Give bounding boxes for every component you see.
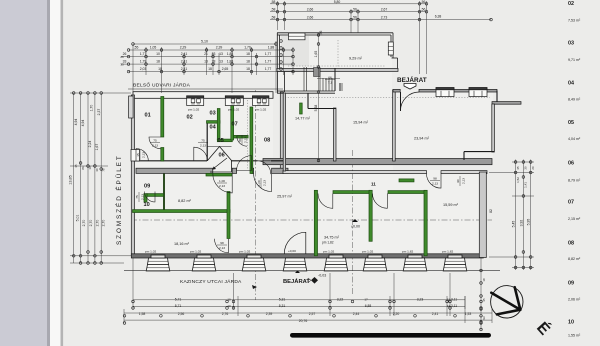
svg-text:76: 76: [102, 168, 106, 172]
svg-text:,58: ,58: [271, 8, 276, 12]
svg-text:2,20: 2,20: [393, 312, 400, 316]
svg-text:2,73: 2,73: [381, 16, 388, 20]
svg-text:04: 04: [210, 125, 217, 131]
svg-text:09: 09: [144, 184, 150, 190]
top-right rows: [270, 3, 427, 5]
svg-text:18,16 m²: 18,16 m²: [174, 242, 190, 246]
svg-text:18: 18: [158, 67, 162, 71]
svg-text:,56: ,56: [421, 0, 426, 4]
dimension node circles: [72, 3, 532, 331]
svg-text:1,88: 1,88: [227, 52, 234, 56]
svg-text:30: 30: [95, 168, 99, 172]
svg-text:2,13: 2,13: [200, 144, 206, 148]
svg-text:pm 1,02: pm 1,02: [145, 249, 156, 253]
room 06 stair trapezoid: [208, 147, 232, 161]
svg-text:2,41: 2,41: [181, 52, 188, 56]
svg-text:2,39: 2,39: [266, 312, 273, 316]
door room07 G6: [237, 136, 247, 146]
svg-text:±0,00: ±0,00: [351, 225, 360, 229]
svg-text:3,92: 3,92: [519, 220, 523, 227]
svg-text:1,52: 1,52: [516, 177, 520, 183]
svg-text:82: 82: [489, 209, 493, 213]
svg-text:21: 21: [204, 52, 208, 56]
right chain nodes: [514, 161, 517, 164]
G3 vertical 03/04: [217, 109, 220, 140]
short green near 399-414 y179: [399, 179, 414, 182]
svg-text:18: 18: [246, 52, 250, 56]
svg-text:25,97 m²: 25,97 m²: [277, 195, 293, 199]
bottom rows nodes: [132, 300, 135, 303]
corridor door at 236-251 swings up: [237, 156, 252, 171]
svg-text:08: 08: [568, 241, 574, 247]
door in green x=228 at bottom: [215, 239, 229, 253]
svg-text:2,13: 2,13: [462, 178, 466, 184]
svg-text:1,41: 1,41: [524, 182, 528, 188]
entrance stoop: [283, 258, 307, 271]
mid-right bottom thick band: [263, 159, 492, 165]
svg-text:66: 66: [328, 76, 332, 80]
svg-text:1,79: 1,79: [244, 46, 251, 50]
svg-text:3,11: 3,11: [451, 304, 457, 308]
svg-text:2,13: 2,13: [263, 180, 267, 186]
G6 bottom of 07: [234, 135, 249, 138]
svg-text:05: 05: [218, 138, 224, 144]
svg-text:1,70: 1,70: [90, 105, 94, 112]
svg-text:2,56: 2,56: [178, 312, 185, 316]
svg-text:18: 18: [208, 67, 212, 71]
svg-text:2,13: 2,13: [244, 137, 248, 143]
svg-text:7,53 m²: 7,53 m²: [568, 19, 581, 23]
svg-text:20: 20: [531, 166, 535, 170]
svg-text:10: 10: [227, 298, 231, 302]
svg-text:pm 1,02: pm 1,02: [228, 107, 239, 111]
svg-text:2,13: 2,13: [152, 144, 158, 148]
svg-text:93: 93: [482, 316, 486, 320]
svg-text:1,77: 1,77: [265, 60, 272, 64]
svg-text:1,00: 1,00: [257, 180, 261, 186]
svg-text:3,11: 3,11: [451, 298, 457, 302]
svg-text:75: 75: [153, 139, 157, 143]
top-right rows nodes: [276, 3, 279, 6]
door into 25,97: [254, 174, 272, 192]
svg-text:86: 86: [81, 166, 85, 170]
svg-text:8,82 m²: 8,82 m²: [178, 199, 192, 203]
svg-text:pm 1,82: pm 1,82: [402, 249, 413, 253]
svg-text:pm 1,02: pm 1,02: [239, 249, 250, 253]
svg-text:2,76: 2,76: [222, 312, 229, 316]
svg-text:2,13: 2,13: [142, 152, 146, 158]
svg-text:09: 09: [568, 281, 574, 287]
entrance arrow symbol top: [404, 84, 416, 90]
svg-text:2,13: 2,13: [432, 182, 438, 186]
bottom outer wall band: [131, 254, 483, 258]
bottom rows: [133, 299, 465, 301]
upper-left block chain circles x281: [280, 40, 283, 43]
svg-text:,56: ,56: [319, 31, 323, 36]
svg-text:2,70: 2,70: [89, 220, 93, 227]
svg-text:2,13: 2,13: [219, 246, 225, 250]
svg-text:30: 30: [524, 166, 528, 170]
chimney window notch: [289, 33, 306, 40]
svg-text:3,23: 3,23: [417, 298, 424, 302]
svg-text:2,57: 2,57: [309, 312, 316, 316]
svg-text:1,88: 1,88: [227, 60, 234, 64]
svg-text:2,06 m²: 2,06 m²: [568, 298, 581, 302]
svg-text:1,55 m²: 1,55 m²: [568, 334, 581, 338]
rotated dimension labels: [69, 31, 536, 320]
svg-text:8,79 m²: 8,79 m²: [568, 179, 581, 183]
G4 horizontal 04 bottom: [217, 139, 232, 142]
left vertical chains: [73, 93, 75, 263]
svg-text:26: 26: [120, 55, 124, 59]
svg-text:pm 1,02: pm 1,02: [362, 249, 373, 253]
chain at x318: [317, 34, 320, 37]
top-left block top wall band: [133, 92, 273, 99]
svg-text:1,00: 1,00: [219, 179, 225, 183]
svg-text:35: 35: [74, 164, 78, 168]
svg-text:5,38: 5,38: [314, 105, 318, 112]
interior black partitions top-left block: [133, 122, 283, 212]
svg-text:,58: ,58: [271, 0, 276, 4]
svg-text:05: 05: [568, 120, 574, 126]
svg-text:06: 06: [219, 153, 225, 159]
svg-text:1,79: 1,79: [140, 60, 147, 64]
corridor bottom wall band (left): [136, 168, 213, 173]
svg-text:75: 75: [135, 195, 139, 199]
svg-text:KAZINCZY UTCAI JÁRDA: KAZINCZY UTCAI JÁRDA: [180, 278, 242, 285]
svg-text:2,70: 2,70: [82, 220, 86, 227]
svg-text:2,66: 2,66: [307, 8, 314, 12]
svg-text:20,76: 20,76: [299, 319, 308, 323]
svg-text:pm 1,82: pm 1,82: [322, 241, 334, 245]
chain below right wall: [480, 269, 483, 272]
svg-text:2,13: 2,13: [141, 194, 145, 200]
svg-text:13,85: 13,85: [69, 175, 73, 185]
right outer wall: [479, 172, 486, 258]
svg-text:2,37: 2,37: [97, 109, 101, 116]
svg-text:10: 10: [88, 166, 92, 170]
svg-text:10: 10: [156, 52, 160, 56]
svg-text:90: 90: [456, 179, 460, 183]
door room08 bottom: [258, 161, 271, 174]
svg-text:80: 80: [238, 138, 242, 142]
svg-text:15,59 m²: 15,59 m²: [443, 203, 459, 207]
bottom band partitions: [314, 190, 317, 256]
svg-text:pm 1,02: pm 1,02: [188, 107, 199, 111]
svg-text:1,65: 1,65: [314, 51, 318, 58]
top-left rows nodes: [127, 49, 130, 52]
svg-text:5,95: 5,95: [527, 219, 531, 226]
svg-text:10: 10: [227, 304, 231, 308]
G5 vertical 03-04 / 07: [231, 97, 234, 141]
wall between stairs zone and 14,77: [277, 90, 335, 92]
svg-text:4,94: 4,94: [74, 119, 78, 126]
svg-text:,55: ,55: [134, 46, 139, 50]
svg-text:2,66: 2,66: [307, 16, 314, 20]
green vertical right of 8,82: [227, 192, 230, 239]
windows on 23,94 top wall: [436, 88, 454, 97]
svg-text:98: 98: [220, 241, 224, 245]
svg-text:4,94: 4,94: [81, 120, 85, 127]
svg-text:pm 1,02: pm 1,02: [255, 107, 266, 111]
svg-text:7,1: 7,1: [328, 81, 333, 85]
bottom entrance arc: [284, 232, 306, 254]
svg-text:5,31: 5,31: [279, 298, 286, 302]
svg-text:23,94 m²: 23,94 m²: [414, 137, 430, 141]
svg-text:4,04 m²: 4,04 m²: [568, 137, 581, 141]
svg-text:2,41: 2,41: [181, 60, 188, 64]
svg-text:1,77: 1,77: [265, 67, 272, 71]
svg-text:9,29 m²: 9,29 m²: [349, 57, 363, 61]
svg-text:10: 10: [568, 320, 574, 326]
stairs hatch upper mid: [304, 67, 342, 91]
svg-text:11: 11: [371, 182, 376, 187]
chain below right wall: [480, 258, 482, 330]
long green bottom of 09/10/8,82: [133, 210, 231, 213]
G1 room01/02 wall: [161, 97, 164, 138]
right vertical chain: [515, 160, 517, 271]
stair direction arrow: [214, 158, 228, 169]
svg-text:1,67: 1,67: [95, 144, 99, 151]
svg-text:pm 1,02: pm 1,02: [190, 249, 201, 253]
svg-text:2,70: 2,70: [102, 220, 106, 227]
svg-text:+0,00: +0,00: [288, 249, 296, 253]
svg-text:1,53: 1,53: [465, 312, 472, 316]
svg-text:1,88: 1,88: [268, 46, 275, 50]
small arrow bottom kazinczy: [252, 285, 257, 289]
svg-text:pm 1,82: pm 1,82: [442, 249, 453, 253]
svg-text:2,24: 2,24: [88, 141, 92, 148]
svg-text:BELSŐ UDVARI JÁRDA: BELSŐ UDVARI JÁRDA: [133, 82, 191, 89]
svg-text:75: 75: [201, 139, 205, 143]
svg-text:2,67: 2,67: [381, 8, 388, 12]
vertical dim at x318.5 upper-right: [318, 34, 320, 163]
svg-text:8,82 m²: 8,82 m²: [568, 257, 581, 261]
G2 bottom of 03: [207, 121, 221, 124]
diamond next to bottom BEJÁRAT: [311, 277, 318, 284]
svg-text:6,88: 6,88: [365, 304, 372, 308]
svg-text:2,39: 2,39: [216, 46, 223, 50]
G7 left wall of 08: [250, 107, 253, 174]
svg-text:83: 83: [212, 52, 216, 56]
svg-text:15: 15: [136, 153, 140, 157]
axis dash-dot lines: [131, 90, 492, 300]
green lintel under stair 06: [206, 173, 232, 176]
svg-text:2,41: 2,41: [181, 67, 188, 71]
svg-text:10: 10: [144, 202, 150, 208]
±0,00 marker: [288, 219, 360, 278]
svg-text:18: 18: [246, 67, 250, 71]
wall 02 right: [206, 122, 208, 161]
svg-text:13: 13: [204, 60, 208, 64]
window right wall 9,29 room: [388, 42, 393, 55]
svg-text:BEJÁRAT: BEJÁRAT: [283, 278, 310, 285]
svg-text:35: 35: [482, 298, 486, 302]
svg-text:3,22: 3,22: [337, 298, 344, 302]
svg-text:14,77 m²: 14,77 m²: [295, 117, 311, 121]
svg-text:78: 78: [212, 60, 216, 64]
main entrance top arc: [401, 92, 420, 111]
svg-text:2,65: 2,65: [222, 67, 229, 71]
wall 14,77 / 15,94: [333, 108, 336, 161]
svg-text:1,77: 1,77: [140, 52, 147, 56]
svg-text:5,80: 5,80: [334, 0, 341, 4]
left chains nodes: [72, 92, 75, 95]
right wall of block 08 / courtyard wall: [280, 92, 283, 172]
big room right door at 09: [145, 192, 156, 203]
svg-text:03: 03: [210, 111, 216, 117]
svg-text:04: 04: [568, 81, 574, 87]
dotted construction lines: [248, 40, 491, 170]
svg-text:1,77: 1,77: [265, 52, 272, 56]
svg-text:5,45: 5,45: [512, 221, 516, 228]
svg-text:35: 35: [516, 166, 520, 170]
door corridor to 8,82: [213, 174, 232, 193]
door room01 in G1: [149, 137, 161, 149]
svg-text:08: 08: [264, 138, 270, 144]
building interior fill: [133, 34, 493, 256]
svg-text:BEJÁRAT: BEJÁRAT: [397, 75, 427, 84]
upper-right block walls: [277, 33, 398, 93]
svg-text:03: 03: [568, 41, 574, 47]
svg-text:13: 13: [219, 60, 223, 64]
top-left corner bump: [129, 96, 134, 118]
svg-text:07: 07: [232, 122, 238, 128]
svg-text:02: 02: [568, 1, 574, 7]
corridor top wall (bottom of rooms 01-07): [133, 160, 207, 162]
svg-text:-0,03: -0,03: [318, 274, 326, 278]
svg-text:18: 18: [156, 60, 160, 64]
wall 15,94 / 23,94: [393, 90, 396, 161]
svg-text:2,13: 2,13: [219, 184, 225, 188]
svg-text:pm 1,02: pm 1,02: [323, 249, 334, 253]
left wall of 14,77: [283, 93, 285, 171]
doors in bottom band partitions: [318, 194, 333, 209]
svg-text:9,71 m²: 9,71 m²: [568, 58, 581, 62]
svg-text:,56: ,56: [352, 8, 357, 12]
door room02 bottom: [194, 147, 208, 161]
small window room 01 left wall: [131, 150, 140, 162]
svg-text:02: 02: [187, 115, 193, 121]
top-left block rows: [133, 43, 276, 45]
svg-text:33: 33: [120, 63, 124, 67]
svg-text:13: 13: [219, 52, 223, 56]
svg-text:5,01: 5,01: [76, 215, 80, 222]
svg-text:2,29: 2,29: [180, 46, 187, 50]
bottom band top thin wall: [283, 171, 427, 174]
green wall x300 room 14,77: [300, 103, 303, 114]
svg-text:,56: ,56: [352, 16, 357, 20]
svg-text:,56: ,56: [421, 8, 426, 12]
svg-text:2,44: 2,44: [353, 312, 360, 316]
left outer wall: [131, 95, 134, 256]
svg-text:8,49 m²: 8,49 m²: [568, 98, 581, 102]
svg-text:98: 98: [433, 177, 437, 181]
room 10 walls: [147, 194, 164, 197]
vertical witness lines across rows: [132, 44, 134, 93]
svg-text:2,41: 2,41: [432, 312, 439, 316]
svg-text:5,71: 5,71: [175, 304, 182, 308]
svg-text:01: 01: [145, 113, 151, 119]
svg-text:2,15 m²: 2,15 m²: [568, 217, 581, 221]
svg-text:07: 07: [568, 200, 574, 206]
svg-text:1,58: 1,58: [139, 312, 146, 316]
svg-text:SZOMSZÉD ÉPÜLET: SZOMSZÉD ÉPÜLET: [114, 154, 123, 245]
svg-text:5,10: 5,10: [201, 40, 208, 44]
svg-text:2,03: 2,03: [140, 67, 147, 71]
svg-text:,58: ,58: [271, 16, 276, 20]
svg-text:15,94 m²: 15,94 m²: [353, 121, 369, 125]
svg-text:06: 06: [568, 161, 574, 167]
svg-text:17: 17: [364, 298, 368, 302]
wall 09/10 right: [163, 174, 165, 212]
svg-text:2,70: 2,70: [96, 220, 100, 227]
door room01 left bottom: [136, 149, 148, 161]
left sidebar: [0, 0, 47, 346]
svg-text:34,75 m²: 34,75 m²: [324, 236, 340, 240]
door in band wall 426-441: [427, 174, 442, 189]
svg-text:18: 18: [246, 60, 250, 64]
svg-text:5,71: 5,71: [175, 298, 182, 302]
mid-right rooms walls: [283, 89, 521, 171]
svg-text:5,31: 5,31: [279, 304, 286, 308]
top wall 23,94 with entrance opening: [393, 89, 400, 92]
svg-text:18: 18: [482, 278, 486, 282]
svg-text:6,38: 6,38: [435, 15, 442, 19]
svg-text:1,05: 1,05: [150, 46, 157, 50]
